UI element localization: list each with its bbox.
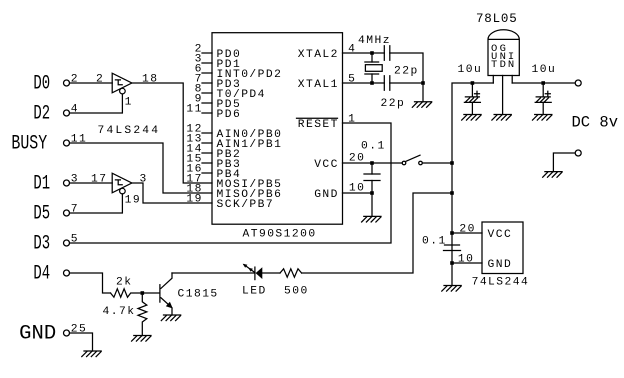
ground Q1 emitter (161, 315, 180, 321)
svg-text:PD6: PD6 (217, 109, 242, 121)
pin stub 10 GND (343, 192, 373, 194)
node DC+ terminal (575, 80, 581, 86)
wire U2b output to SCK (132, 183, 212, 203)
ground VCC rail bottom (442, 286, 461, 292)
wire VCC rail (452, 83, 493, 286)
svg-text:78L05: 78L05 (476, 12, 518, 26)
capacitor C5 0.1 plates (444, 245, 461, 251)
svg-text:20: 20 (459, 224, 475, 236)
transistor Q1 emitter (161, 298, 172, 315)
wire base junction to Q1 (142, 292, 159, 294)
node MCU GND junction (370, 191, 374, 195)
svg-text:4.7k: 4.7k (103, 306, 136, 318)
svg-text:GND: GND (488, 259, 513, 271)
buffer U2a inner mark (115, 80, 122, 85)
svg-text:D0: D0 (33, 72, 50, 95)
svg-text:4: 4 (71, 104, 79, 116)
node base junction (141, 291, 145, 295)
pin stub 6 INT0/PD2 (202, 72, 212, 74)
LED D1 cathode bar (254, 267, 256, 280)
svg-text:10: 10 (349, 183, 365, 195)
pin stub 20 VCC (343, 162, 373, 164)
capacitor C6 10u (464, 91, 480, 102)
node C7 junction (541, 81, 545, 85)
svg-text:T: T (491, 59, 497, 71)
IC U1 AT90S1200 box (212, 33, 343, 225)
node XTAL2 junction (370, 51, 374, 55)
regulator U3 78L05 body (488, 30, 519, 76)
wire LED anode to R3 (262, 272, 280, 274)
wire U3 IN to DC terminal (512, 82, 575, 84)
LED emission arrow head 1 (243, 264, 248, 268)
svg-text:D5: D5 (33, 202, 50, 225)
svg-text:11: 11 (186, 104, 202, 116)
svg-text:5: 5 (348, 74, 356, 86)
node rail-C5 junction (450, 231, 454, 235)
svg-text:10u: 10u (532, 64, 557, 76)
svg-text:20: 20 (349, 153, 365, 165)
pin stub 7 PD3 (202, 82, 212, 84)
LED emission arrow head 2 (248, 268, 253, 272)
crystal X1 leads (371, 53, 373, 83)
pin stub 14 PB2 (202, 152, 212, 154)
svg-text:74LS244: 74LS244 (98, 125, 160, 137)
pin stub 16 PB4 (202, 172, 212, 174)
svg-text:D: D (500, 59, 506, 71)
svg-text:10u: 10u (458, 64, 483, 76)
wire D4 to resistor R1 (70, 273, 111, 293)
wire GND terminal to ground (70, 333, 93, 351)
svg-text:DC 8v: DC 8v (572, 114, 619, 132)
svg-text:4MHz: 4MHz (358, 35, 391, 47)
capacitor C6 10u leads (471, 83, 473, 115)
node VCC junction (370, 161, 374, 165)
pin stub 3 PD1 (202, 62, 212, 64)
capacitor C3 0.1 plates (364, 174, 380, 181)
crystal X1 body (365, 65, 382, 72)
svg-text:2: 2 (96, 74, 104, 86)
svg-text:SCK/PB7: SCK/PB7 (217, 199, 275, 211)
switch S1 lever (406, 155, 420, 161)
wire BUSY to MISO/PB6 (70, 143, 213, 193)
svg-text:74LS244: 74LS244 (472, 277, 530, 289)
svg-text:AT90S1200: AT90S1200 (243, 229, 317, 241)
wire XTAL2 to C1 (372, 52, 384, 54)
pin stub 2 PD0 (202, 52, 212, 54)
node D2 terminal (64, 110, 70, 116)
wire MCU GND to ground (371, 193, 373, 216)
wire D0 to buffer U2a input (70, 82, 113, 84)
wire rail to LS244 GND (452, 262, 482, 264)
svg-text:RESET: RESET (298, 119, 339, 131)
pin stub 11 PD6 (202, 112, 212, 114)
node BUSY terminal (64, 140, 70, 146)
LED emission arrow shaft (244, 265, 255, 273)
node rail-GND junction (450, 261, 454, 265)
svg-text:N: N (508, 59, 514, 71)
pin stub 13 AIN1/PB1 (202, 142, 212, 144)
svg-text:D1: D1 (33, 172, 50, 195)
svg-text:GND: GND (314, 189, 339, 201)
wire D5 to buffer U2b enable (70, 194, 123, 213)
ground crystal caps (412, 102, 431, 108)
pin stub 9 PD5 (202, 102, 212, 104)
IC U2 74LS244 power box (482, 222, 523, 274)
svg-text:5: 5 (71, 234, 79, 246)
capacitor C1 22p (384, 46, 390, 61)
node D5 terminal (64, 210, 70, 216)
svg-text:LED: LED (242, 286, 267, 298)
pin stub 5 XTAL1 (343, 82, 373, 84)
svg-text:1: 1 (348, 114, 356, 126)
svg-text:19: 19 (186, 194, 202, 206)
resistor R3 500 (280, 269, 302, 277)
resistor R2 4.7k (138, 293, 147, 336)
RESET overline (297, 117, 338, 119)
ground C7 (533, 115, 552, 121)
wire XTAL1 to C2 (372, 82, 384, 84)
svg-text:17: 17 (91, 174, 107, 186)
transistor Q1 collector (161, 273, 172, 288)
pin stub 12 AIN0/PB0 (202, 132, 212, 134)
transistor Q1 base bar (159, 285, 161, 302)
svg-text:1: 1 (125, 97, 133, 109)
svg-text:C1815: C1815 (178, 289, 219, 301)
buffer U2a triangle (112, 73, 132, 93)
svg-text:11: 11 (71, 134, 87, 146)
ground R2 (132, 336, 151, 342)
svg-text:500: 500 (284, 286, 309, 298)
svg-text:VCC: VCC (314, 159, 339, 171)
wire rail to LS244 VCC (452, 232, 482, 234)
pin stub 4 XTAL2 (343, 52, 373, 54)
svg-text:VCC: VCC (488, 229, 513, 241)
svg-text:10: 10 (458, 254, 474, 266)
svg-text:22p: 22p (394, 66, 419, 78)
svg-text:4: 4 (348, 44, 356, 56)
ground C6 (462, 115, 481, 121)
wire Q1 collector to LED (172, 272, 255, 274)
svg-text:GND: GND (19, 322, 56, 345)
node rail-switch junction (450, 161, 454, 165)
svg-text:XTAL2: XTAL2 (298, 49, 339, 61)
capacitor C2 22p (384, 76, 390, 91)
buffer U2b enable bubble (120, 188, 126, 194)
ground GND terminal (82, 351, 101, 357)
svg-text:BUSY: BUSY (11, 132, 47, 155)
svg-text:25: 25 (71, 324, 87, 336)
node D0 terminal (64, 80, 70, 86)
wire C1 to ground rail (390, 53, 423, 83)
wire DC- to ground (553, 153, 575, 172)
pin stub 8 T0/PD4 (202, 92, 212, 94)
capacitor C7 10u leads (542, 83, 544, 115)
svg-text:2k: 2k (116, 277, 132, 289)
LED D1 triangle (256, 267, 263, 279)
node C6 junction (471, 81, 475, 85)
svg-text:7: 7 (71, 204, 79, 216)
pin stub 15 PB3 (202, 162, 212, 164)
wire R3 to VCC rail (302, 193, 452, 273)
svg-text:0.1: 0.1 (422, 236, 447, 248)
buffer U2b triangle (112, 173, 132, 193)
crystal X1 plates (365, 62, 379, 74)
node XTAL1 junction (370, 81, 374, 85)
node D3 terminal (64, 240, 70, 246)
switch S1 pole a (402, 161, 406, 165)
node D4 terminal (64, 270, 70, 276)
wire U2a output to MOSI (132, 83, 212, 183)
svg-text:22p: 22p (381, 98, 406, 110)
ground DC- (543, 172, 562, 178)
regulator U3 legs (493, 76, 512, 115)
node xtal ground junction (421, 81, 425, 85)
wire VCC to switch (372, 162, 402, 164)
node D1 terminal (64, 180, 70, 186)
transistor Q1 emitter arrow (166, 302, 173, 309)
svg-text:2: 2 (71, 74, 79, 86)
wire switch to VCC rail (422, 162, 452, 164)
ground MCU (362, 216, 381, 222)
svg-text:D3: D3 (33, 232, 50, 255)
node rail-LED junction (450, 191, 454, 195)
node DC- terminal (575, 150, 581, 156)
capacitor C3 0.1 leads (371, 163, 373, 193)
svg-text:D4: D4 (33, 262, 50, 285)
capacitor C7 10u (535, 91, 551, 102)
switch S1 pole b (419, 161, 423, 165)
svg-text:3: 3 (71, 174, 79, 186)
node GND terminal (64, 330, 70, 336)
buffer U2b inner mark (115, 180, 122, 185)
svg-text:D2: D2 (33, 102, 50, 125)
ground U3 (492, 115, 511, 121)
svg-text:19: 19 (125, 194, 141, 206)
wire D3 to RESET (70, 123, 392, 243)
svg-text:XTAL1: XTAL1 (298, 79, 339, 91)
svg-text:18: 18 (142, 74, 158, 86)
resistor R1 2k (111, 289, 143, 297)
buffer U2a enable bubble (120, 88, 126, 94)
wire D2 to buffer U2a enable (70, 94, 123, 113)
svg-text:3: 3 (140, 174, 148, 186)
wire C2 to ground (390, 83, 423, 102)
svg-text:0.1: 0.1 (361, 140, 386, 152)
wire D1 to buffer U2b input (70, 182, 113, 184)
